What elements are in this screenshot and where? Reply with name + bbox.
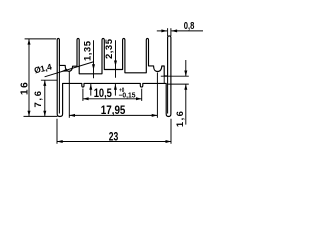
svg-text:2,35: 2,35: [104, 38, 115, 59]
svg-text:Ø1,4: Ø1,4: [33, 62, 53, 76]
svg-text:−0,15: −0,15: [119, 92, 136, 99]
svg-text:1,6: 1,6: [175, 110, 186, 127]
svg-text:0,8: 0,8: [184, 21, 195, 32]
svg-text:10,5: 10,5: [94, 86, 112, 100]
svg-text:17,95: 17,95: [101, 103, 126, 117]
svg-text:16: 16: [20, 81, 31, 95]
svg-text:23: 23: [109, 130, 119, 144]
svg-text:7,6: 7,6: [33, 89, 44, 107]
svg-text:1,35: 1,35: [83, 40, 94, 61]
